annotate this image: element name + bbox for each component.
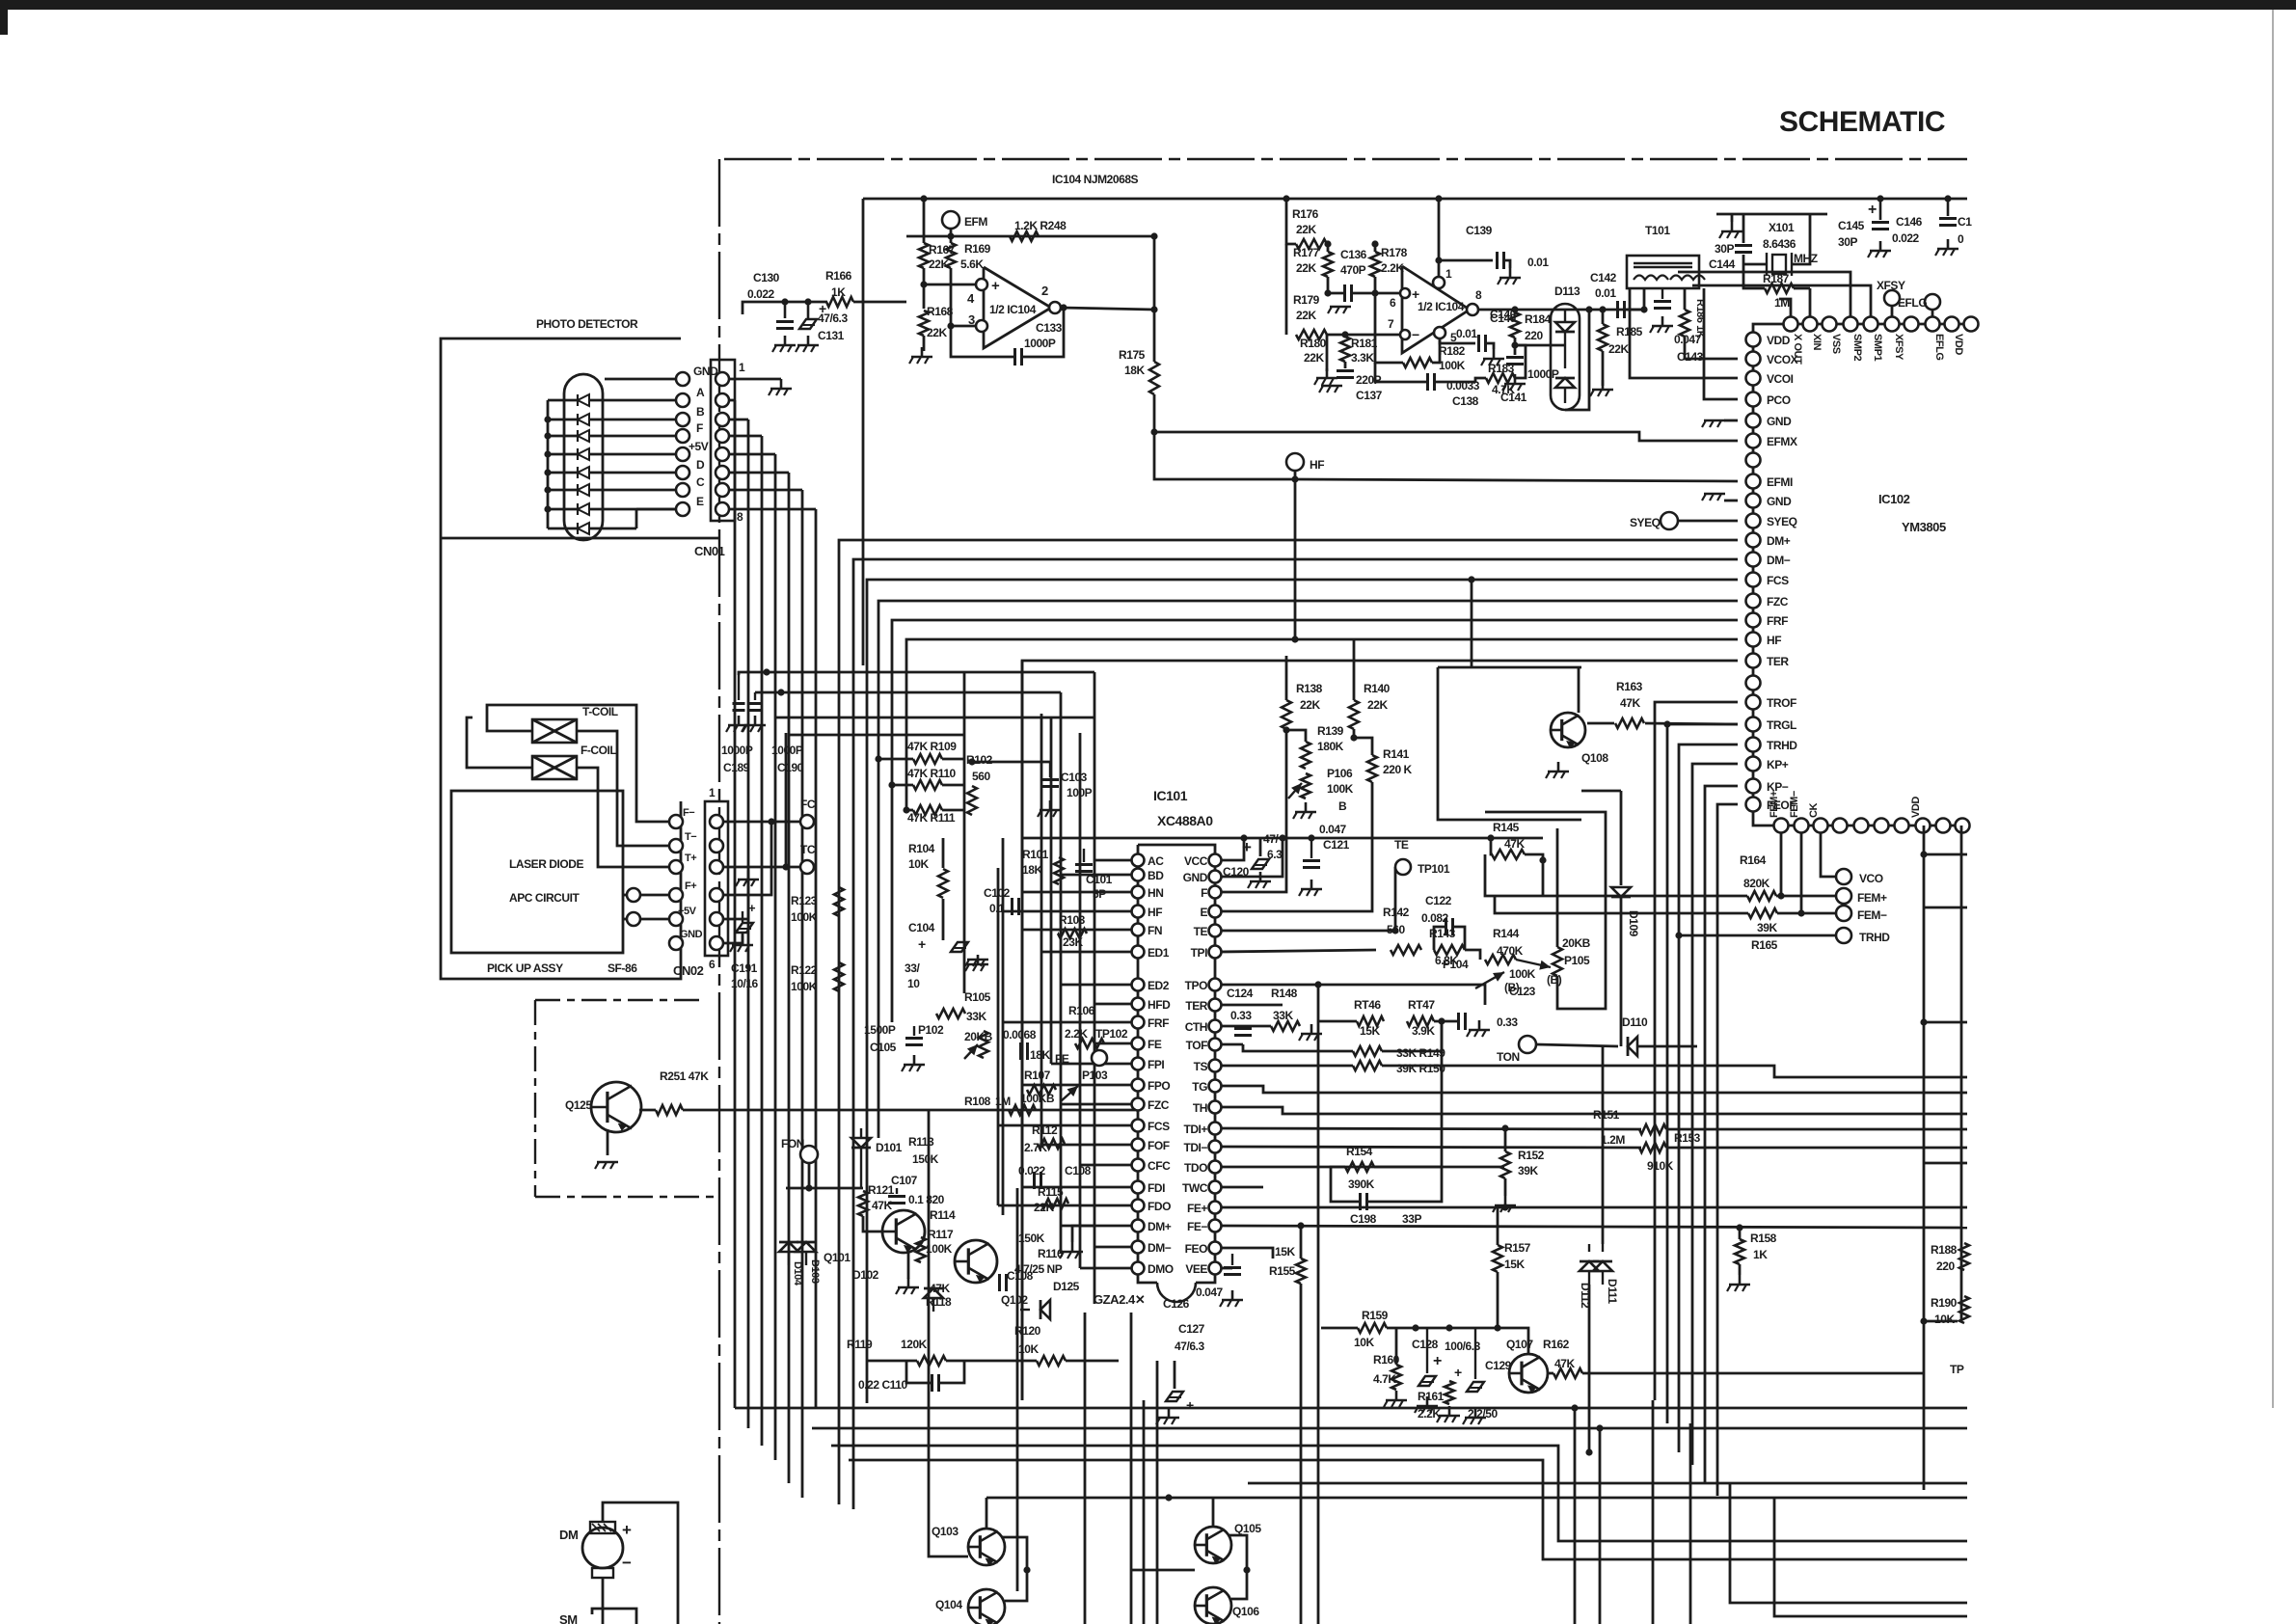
svg-text:SYEQ: SYEQ — [1767, 515, 1797, 528]
pin label CN01 GND — [693, 365, 718, 378]
svg-text:33/: 33/ — [905, 961, 920, 975]
svg-text:FON: FON — [781, 1137, 804, 1150]
resistor R168 — [919, 311, 929, 336]
pin label IC102 TRHD — [1767, 739, 1797, 752]
resistor R187 — [1765, 284, 1794, 293]
pin label IC101 FCS — [1148, 1120, 1170, 1133]
connector CN01 box — [711, 360, 735, 521]
resistor R162 — [1553, 1368, 1582, 1378]
wire R152 top — [1504, 1128, 1507, 1151]
wire R186 bottom to VCOX — [1685, 337, 1738, 359]
resistor R103 — [1058, 929, 1087, 938]
svg-text:DM+: DM+ — [1148, 1220, 1172, 1233]
label SF-86 — [608, 961, 637, 975]
potentiometer P104 arrow — [1475, 972, 1504, 988]
junction TE — [1391, 927, 1398, 934]
wire R248 down — [1153, 236, 1156, 310]
pin 7 IC104b — [1388, 317, 1394, 331]
junction output C133 — [1060, 304, 1067, 311]
wire R159 right — [1387, 1328, 1528, 1354]
svg-text:FC: FC — [800, 798, 816, 811]
photodiode array pill — [564, 374, 603, 540]
ground Q108 — [1546, 762, 1569, 778]
svg-text:C127: C127 — [1178, 1322, 1205, 1336]
junction R167 R168 — [920, 281, 927, 287]
junction R145 right — [1539, 856, 1546, 863]
pin label IC101 HF — [1148, 906, 1162, 919]
svg-text:C103: C103 — [1061, 771, 1088, 784]
terminal FEM+ — [1836, 888, 1851, 904]
svg-text:R187: R187 — [1763, 272, 1790, 285]
svg-text:220 K: 220 K — [1383, 763, 1413, 776]
wire D113 mid tap — [1515, 344, 1565, 347]
wire CN02 -5V row — [723, 871, 748, 919]
svg-text:47K: 47K — [872, 1199, 892, 1212]
Q103 Q104 wiring — [929, 1498, 1031, 1601]
svg-text:SMP2: SMP2 — [1851, 334, 1863, 361]
label R162 — [1543, 1338, 1570, 1351]
svg-text:820K: 820K — [1743, 877, 1770, 890]
svg-text:LASER DIODE: LASER DIODE — [509, 857, 584, 871]
value 47K R109 — [907, 740, 957, 753]
value 0.047 C126 — [1196, 1286, 1224, 1299]
value 6.8K R143 — [1435, 954, 1458, 967]
transformer T101 box — [1627, 256, 1705, 288]
capacitor C129 electrolytic — [1467, 1328, 1484, 1392]
value 22K R177 — [1296, 261, 1316, 275]
wire Q125 collector out — [639, 1109, 656, 1112]
junction VCC rail b — [1279, 834, 1285, 841]
wire TPO line — [1221, 985, 1485, 1005]
resistor R190 — [1959, 1296, 1969, 1323]
wire R119-R120 — [868, 1360, 917, 1363]
pin label IC101 FOF — [1148, 1139, 1170, 1152]
dash-dot box around Q125 — [535, 1000, 719, 1197]
resistor R104 — [938, 869, 948, 898]
svg-text:F+: F+ — [685, 880, 696, 892]
pin label CN01 +5V — [689, 440, 709, 453]
wire C130 node — [743, 302, 827, 314]
label R139 — [1317, 724, 1344, 738]
value 22K R138 — [1300, 698, 1320, 712]
label R112 — [1032, 1123, 1058, 1137]
capacitor C103 — [1041, 762, 1059, 787]
capacitor C136 — [1345, 284, 1352, 302]
resistor R154 — [1345, 1162, 1374, 1172]
wire R163 right — [1645, 723, 1738, 724]
label R164 — [1740, 853, 1767, 867]
label C129 — [1485, 1359, 1512, 1372]
wire VEE — [1221, 1267, 1232, 1270]
svg-text:ED2: ED2 — [1148, 979, 1170, 992]
value 47/6.3 C131 — [818, 311, 848, 325]
IC101 right pin circles — [1209, 854, 1222, 1275]
svg-text:TPI: TPI — [1191, 946, 1207, 960]
junction bottom line 1 — [1571, 1404, 1578, 1411]
svg-text:1: 1 — [1445, 267, 1452, 281]
svg-text:FEM+: FEM+ — [1857, 891, 1887, 905]
junction FEM- — [1797, 909, 1804, 916]
value 47/6.3 C120 — [1263, 832, 1279, 846]
junction TRHD — [1675, 932, 1682, 938]
value 15K R157 — [1504, 1258, 1525, 1271]
svg-text:Q108: Q108 — [1581, 751, 1608, 765]
label R182 — [1439, 344, 1466, 358]
label D104 — [792, 1261, 803, 1286]
value 100K R123 — [791, 910, 818, 924]
svg-text:DM−: DM− — [1767, 554, 1791, 567]
pin label IC102 PCO — [1767, 393, 1791, 407]
value 220K R141 — [1383, 763, 1413, 776]
op-amp U IC104b triangle — [1402, 266, 1470, 353]
svg-text:100/6.3: 100/6.3 — [1445, 1340, 1481, 1353]
wire TG step — [1221, 1086, 1967, 1093]
label R138 — [1296, 682, 1323, 695]
svg-text:22K: 22K — [1296, 309, 1316, 322]
junction R185 top — [1599, 306, 1606, 312]
wire R175 lower — [1154, 394, 1295, 479]
svg-text:R106: R106 — [1068, 1004, 1095, 1017]
pin number 8 CN01 — [737, 510, 743, 524]
pin label IC101 FN — [1148, 924, 1162, 937]
value 0.01 C139 — [1527, 256, 1549, 269]
pin label IC102 TROF — [1767, 696, 1796, 710]
IC101 chip outline — [1138, 845, 1215, 1302]
laser diode box — [451, 791, 623, 953]
value 47K R145 — [1504, 837, 1525, 851]
wire R109 left — [878, 758, 913, 761]
resistor RT46 — [1357, 1016, 1384, 1026]
wire TER line — [1221, 1004, 1283, 1007]
wire RT47 junction vertical — [1441, 1021, 1444, 1167]
svg-text:FRF: FRF — [1767, 614, 1788, 628]
wire Q107 out — [1548, 1372, 1553, 1375]
capacitor C147 — [1939, 199, 1957, 226]
svg-text:FRF: FRF — [1148, 1016, 1169, 1030]
svg-text:4.7K: 4.7K — [1373, 1372, 1396, 1386]
pin label IC101 right TDI&#8722; — [1183, 1141, 1207, 1154]
wire D109 lower — [1620, 897, 1623, 1046]
resistor R164 — [1747, 891, 1776, 901]
svg-text:560: 560 — [972, 770, 990, 783]
F-COIL inductor — [532, 756, 577, 779]
svg-text:C146: C146 — [1896, 215, 1923, 229]
wire XOUT vertical — [1779, 299, 1791, 324]
IC102 top pin circles — [1784, 317, 1979, 332]
label FEM- — [1857, 908, 1887, 922]
label C124 — [1227, 987, 1254, 1000]
svg-text:+: + — [991, 278, 1000, 294]
svg-text:TP: TP — [1950, 1363, 1964, 1376]
op-amp U IC104a triangle — [984, 267, 1051, 348]
capacitor 0.01 pin5 — [1479, 335, 1486, 352]
value 0.01 pin5 — [1456, 327, 1477, 340]
wire R150 right — [1382, 1066, 1967, 1077]
svg-text:1K: 1K — [1753, 1248, 1768, 1261]
label R117 — [928, 1228, 954, 1241]
bottom bus line 5 — [1248, 1482, 1967, 1485]
wire feed y744 — [775, 717, 1094, 719]
svg-text:C104: C104 — [908, 921, 935, 934]
label C146 — [1896, 215, 1923, 229]
wire R149 row — [1257, 1050, 1353, 1053]
wire CN01 pin1 to ground — [729, 378, 781, 381]
svg-text:47/6.3: 47/6.3 — [1175, 1340, 1204, 1353]
svg-text:C137: C137 — [1356, 389, 1383, 402]
ground IC102 GND2 — [1702, 494, 1725, 501]
junction T101 in — [1640, 306, 1647, 312]
pin label CN01 F — [696, 421, 703, 435]
junction HF bus — [1291, 636, 1298, 642]
svg-text:C131: C131 — [818, 329, 845, 342]
pin label IC101 right FEO — [1185, 1242, 1207, 1256]
pin number 6 CN02 — [709, 958, 716, 971]
value 100P C103 — [1067, 786, 1093, 799]
wire R185 leads — [1602, 310, 1605, 324]
svg-text:GND: GND — [1767, 415, 1792, 428]
svg-text:22K: 22K — [927, 326, 947, 339]
svg-text:47K: 47K — [1620, 696, 1640, 710]
bottom left verticals — [929, 985, 1318, 1624]
label C144 — [1709, 257, 1736, 271]
svg-text:Q105: Q105 — [1234, 1522, 1261, 1535]
svg-text:R182: R182 — [1439, 344, 1466, 358]
value 39K R165 — [1757, 921, 1777, 934]
terminal HF — [1286, 453, 1304, 471]
svg-text:R178: R178 — [1381, 246, 1408, 259]
svg-text:10K: 10K — [908, 857, 929, 871]
junction R159 b — [1445, 1324, 1452, 1331]
svg-text:TPO: TPO — [1185, 979, 1207, 992]
svg-text:15K: 15K — [1504, 1258, 1525, 1271]
svg-text:C123: C123 — [1509, 985, 1536, 998]
wire FON stem — [808, 1163, 811, 1188]
ground C146 — [1868, 241, 1891, 257]
value 47K R163 — [1620, 696, 1640, 710]
value 100K R122 — [791, 980, 818, 993]
svg-text:C144: C144 — [1709, 257, 1736, 271]
svg-text:0.33: 0.33 — [1497, 1015, 1518, 1029]
wire TON to D110 — [1536, 1044, 1618, 1046]
value 1000P C190 — [771, 744, 803, 757]
svg-text:R101: R101 — [1022, 848, 1049, 861]
label CN01 — [694, 544, 725, 558]
wire R155 bottom — [1300, 1284, 1303, 1313]
svg-text:C189: C189 — [723, 761, 750, 774]
pin label IC102 bottom FEM&#8722; — [1789, 791, 1800, 818]
svg-text:C1: C1 — [1958, 215, 1972, 229]
wire R175 vertical — [1153, 310, 1156, 362]
resistor R188 — [1959, 1243, 1969, 1270]
ground C103 — [1038, 800, 1061, 817]
bus wire TRHD — [1679, 744, 1738, 1452]
wire CK to VCO — [1821, 833, 1836, 877]
svg-text:HF: HF — [1148, 906, 1162, 919]
resistor R115 — [1041, 1199, 1068, 1208]
wire R187 right — [1794, 287, 1810, 290]
ground R152 — [1493, 1196, 1516, 1212]
label GZA2.4 — [1094, 1292, 1145, 1307]
ground R148 — [1299, 1024, 1322, 1041]
pin label IC101 right VEE — [1185, 1262, 1207, 1276]
wire R158 top — [1739, 1228, 1742, 1239]
svg-text:C191: C191 — [731, 961, 758, 975]
value 560 R102 — [972, 770, 990, 783]
svg-text:22K: 22K — [1296, 261, 1316, 275]
wire R166 to opamp block — [853, 301, 906, 304]
wire minus input rail — [1327, 334, 1405, 337]
svg-text:22K: 22K — [1304, 351, 1324, 365]
label TE TP101 — [1394, 838, 1409, 852]
svg-text:TON: TON — [1497, 1050, 1520, 1064]
value2 C104 — [907, 977, 920, 990]
svg-text:GZA2.4✕: GZA2.4✕ — [1094, 1292, 1145, 1307]
pin label CN02 GND — [680, 929, 703, 940]
pin label IC101 right TE — [1194, 925, 1208, 938]
pin label IC101 right TS — [1194, 1060, 1208, 1073]
svg-text:10K: 10K — [1018, 1342, 1039, 1356]
label P102 — [918, 1023, 944, 1037]
svg-text:IC104 NJM2068S: IC104 NJM2068S — [1052, 173, 1139, 186]
label R148 — [1271, 987, 1298, 1000]
ground C131 — [796, 336, 819, 352]
diode D101 — [851, 1128, 871, 1188]
wire D113 wrap — [1565, 310, 1589, 410]
capacitor C107 — [888, 1188, 905, 1204]
pin label IC102 KP+ — [1767, 758, 1789, 771]
label P106 — [1327, 767, 1353, 780]
label XFSY — [1877, 279, 1905, 292]
label R251 47K — [660, 1069, 709, 1083]
pin label IC101 AC — [1148, 854, 1164, 868]
ground TOF cap — [1467, 1020, 1490, 1037]
resistor R119 — [917, 1356, 946, 1366]
wire R159 left — [1321, 1327, 1358, 1330]
wire TOF pin — [1221, 1043, 1243, 1046]
pin label CN02 &#8722;5V — [678, 906, 697, 917]
wire FE+ line — [1221, 1206, 1967, 1209]
ground C126 — [1220, 1290, 1243, 1307]
value 10/16 C191 — [731, 977, 759, 990]
junction ladder b — [1920, 1018, 1927, 1025]
pin label IC101 FE — [1148, 1038, 1162, 1051]
value (B) P104 — [1547, 973, 1562, 987]
terminal EFLG — [1925, 294, 1940, 310]
op-amp IC104a output circle — [1049, 302, 1061, 313]
pin label IC102 top VSS — [1830, 334, 1842, 354]
wire C142 to T101 — [1625, 309, 1644, 311]
resistor R177 — [1323, 252, 1333, 277]
svg-text:−5V: −5V — [678, 906, 697, 917]
label SM motor — [559, 1612, 578, 1624]
svg-text:0: 0 — [1958, 232, 1964, 246]
label C140 — [1490, 311, 1517, 325]
label C126 — [1163, 1297, 1190, 1311]
value 2.7K R112 — [1024, 1141, 1047, 1154]
pin label IC102 VDD — [1767, 334, 1791, 347]
svg-text:+5V: +5V — [689, 440, 709, 453]
pin label IC101 HFD — [1148, 998, 1171, 1012]
junction FEM+ — [1777, 892, 1784, 899]
pin label IC101 right TPO — [1185, 979, 1207, 992]
wire R139 top — [1286, 730, 1306, 742]
bus wire TRGL — [1667, 724, 1738, 1423]
svg-text:+: + — [918, 936, 926, 952]
svg-text:47K: 47K — [930, 1282, 950, 1295]
svg-text:C126: C126 — [1163, 1297, 1190, 1311]
IC102 chip outline — [1753, 324, 1967, 826]
svg-text:R138: R138 — [1296, 682, 1323, 695]
resistor R149 — [1353, 1046, 1382, 1056]
svg-text:P104: P104 — [1443, 958, 1469, 971]
label R178 — [1381, 246, 1408, 259]
wire Q125 emitter — [607, 1129, 609, 1155]
motor SM box — [592, 1609, 636, 1624]
transistor Q105 — [1195, 1527, 1231, 1564]
label R123 — [791, 894, 818, 907]
bus wire TROF — [1655, 702, 1738, 1400]
wire EFLG stem — [1931, 310, 1934, 324]
svg-text:0.047: 0.047 — [1196, 1286, 1224, 1299]
label T101 — [1645, 224, 1670, 237]
value 22K R115 — [1034, 1201, 1054, 1214]
svg-text:TC: TC — [800, 843, 816, 856]
value 0.1 820 — [908, 1193, 945, 1206]
value C147 — [1958, 232, 1964, 246]
plus C104 — [918, 936, 926, 952]
wire IC102 GND2 stub — [1724, 500, 1738, 502]
label R152 — [1518, 1149, 1545, 1162]
label R185 — [1616, 325, 1643, 338]
value 0.022 C146 — [1892, 231, 1920, 245]
pin 1 circle IC104b — [1433, 277, 1445, 288]
svg-text:1: 1 — [709, 786, 716, 799]
wire R110 left — [892, 784, 913, 787]
svg-text:5.6K: 5.6K — [960, 257, 984, 271]
value 1M R108 — [995, 1095, 1011, 1108]
label R188 — [1931, 1243, 1958, 1257]
value 470K R144 — [1497, 944, 1524, 958]
junction EFMX line — [1150, 428, 1157, 435]
svg-text:220: 220 — [1936, 1259, 1955, 1273]
svg-text:GND: GND — [680, 929, 703, 940]
junction out R184 — [1511, 306, 1518, 312]
svg-text:47K: 47K — [1554, 1357, 1575, 1370]
svg-text:R116: R116 — [1038, 1247, 1064, 1260]
svg-text:R176: R176 — [1292, 207, 1319, 221]
label R101 — [1022, 848, 1049, 861]
vertical bus wires from CN01 — [735, 400, 816, 1498]
svg-text:HF: HF — [1767, 634, 1781, 647]
svg-text:100K: 100K — [791, 910, 818, 924]
pin label CN01 B — [696, 405, 705, 419]
svg-text:X OUT: X OUT — [1792, 334, 1803, 365]
value 0.33 C124 — [1230, 1009, 1252, 1022]
diode D110 — [1628, 1037, 1637, 1056]
pin label IC101 right TPI — [1191, 946, 1207, 960]
label D113 — [1554, 284, 1580, 298]
junction TPO — [1314, 981, 1321, 988]
value 2.2K R178 — [1381, 261, 1404, 275]
svg-text:15K: 15K — [1360, 1024, 1380, 1038]
junction C190 — [777, 689, 784, 695]
wire RT46 RT47 row — [1318, 1020, 1357, 1023]
svg-text:C142: C142 — [1590, 271, 1617, 284]
svg-text:FE+: FE+ — [1187, 1202, 1207, 1215]
svg-text:33P: 33P — [1402, 1212, 1421, 1226]
svg-text:TRHD: TRHD — [1859, 931, 1890, 944]
svg-text:PICK UP ASSY: PICK UP ASSY — [487, 961, 563, 975]
